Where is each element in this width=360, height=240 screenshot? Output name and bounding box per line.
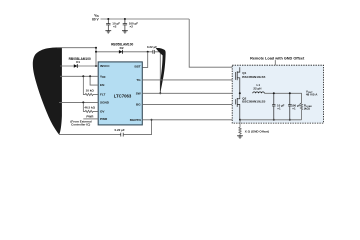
node dot SW midpoint <box>239 92 241 94</box>
wire PWR input <box>83 118 98 120</box>
svg-text:INVCC: INVCC <box>100 64 110 68</box>
svg-text:×2: ×2 <box>130 25 134 29</box>
svg-text:BST: BST <box>135 65 141 69</box>
svg-text:(kΩ): (kΩ) <box>304 107 310 111</box>
node dots ground rail <box>239 119 241 121</box>
pin labels left <box>100 64 110 121</box>
wire output rail <box>264 93 301 103</box>
svg-text:FLT: FLT <box>100 93 106 97</box>
capacitor COUT1 10uF <box>272 93 275 120</box>
load box dashed <box>232 65 323 123</box>
wire SW <box>142 92 240 94</box>
wire EN jog <box>90 76 98 85</box>
svg-text:60 V: 60 V <box>92 17 99 21</box>
wire D2 branch <box>96 51 153 53</box>
capacitor CBST 0.22uF <box>153 50 154 54</box>
svg-text:BG: BG <box>136 103 141 107</box>
wire bottom rail right segment <box>123 120 151 135</box>
svg-text:D1: D1 <box>76 60 80 64</box>
wire top-left from blob <box>57 48 96 66</box>
svg-text:PWR: PWR <box>100 117 108 121</box>
svg-text:SW: SW <box>136 91 141 95</box>
node dot cout2 <box>289 92 291 94</box>
svg-text:BSC059N10LS5: BSC059N10LS5 <box>242 100 265 104</box>
node dot D2 wire start <box>95 51 97 53</box>
svg-text:×2: ×2 <box>113 25 117 29</box>
svg-text:TG: TG <box>136 78 141 82</box>
wire BST riser <box>142 52 147 68</box>
node dot SGND-OV <box>82 101 84 103</box>
ground for CIN2 <box>122 31 128 33</box>
svg-text:0.22 µF: 0.22 µF <box>147 45 157 49</box>
resistor X GND offset <box>239 120 241 136</box>
wire TG <box>142 79 235 81</box>
svg-text:LTC7063: LTC7063 <box>114 94 132 99</box>
wire BG <box>142 103 235 105</box>
title tick <box>274 60 276 65</box>
capacitor CIN1 10uF x2 <box>106 19 110 31</box>
node dot bootstrap junction <box>147 51 149 53</box>
node VIN label <box>92 13 99 21</box>
svg-text:SGND: SGND <box>100 101 110 105</box>
node dot BGRTN junction <box>151 119 153 121</box>
node dot VDD-FLT <box>82 75 84 77</box>
capacitor C 0.22uF bottom <box>121 133 123 137</box>
diode D2 RB058LAM100 <box>119 50 123 54</box>
capacitor CIN2 100uF x2 <box>123 19 127 31</box>
wire ground rail inside box <box>240 119 302 121</box>
ground X <box>237 136 243 138</box>
node junction dot CIN2 <box>124 18 126 20</box>
transistor Q2 <box>236 93 240 120</box>
wire VIN rail drop to Q1 drain <box>189 19 240 67</box>
svg-text:X Ω (GND Offset): X Ω (GND Offset) <box>245 129 269 133</box>
wire VDD from blob <box>60 75 98 77</box>
transistor Q1 <box>236 67 240 93</box>
svg-text:×1: ×1 <box>277 107 281 111</box>
node dot VDD-EN <box>89 75 91 77</box>
svg-text:PWR: PWR <box>86 114 94 118</box>
ground for CIN1 <box>105 31 111 33</box>
svg-text:Controller IC): Controller IC) <box>71 123 90 127</box>
svg-text:48 V/5 A: 48 V/5 A <box>306 93 318 97</box>
svg-text:46.5 kΩ: 46.5 kΩ <box>84 105 95 109</box>
svg-text:D2: D2 <box>120 46 124 50</box>
svg-text:BGRTN: BGRTN <box>130 118 142 122</box>
wire SGND from blob <box>59 101 98 103</box>
node dot at INVCC junction <box>95 65 97 67</box>
IC U1 LTC7063 <box>98 62 142 125</box>
node dot cout1 <box>273 92 275 94</box>
node dot SW bootstrap <box>159 92 161 94</box>
wire INVCC from blob <box>60 65 98 67</box>
resistor RLOAD <box>300 103 302 120</box>
decorative black blob left <box>33 47 62 134</box>
node junction dot CIN1 <box>107 18 109 20</box>
wire bottom rail from blob tip <box>59 134 121 136</box>
node dot corner <box>95 47 97 49</box>
pin labels right <box>130 65 142 122</box>
wire VIN top rail <box>101 18 190 20</box>
svg-text:0.22 µF: 0.22 µF <box>114 128 124 132</box>
svg-text:22 µH: 22 µH <box>253 86 261 90</box>
resistor R FLT pull-up 10k <box>83 76 98 95</box>
decorative black swoosh <box>156 48 166 93</box>
svg-text:Remote Load with GND Offset: Remote Load with GND Offset <box>250 57 305 61</box>
svg-text:×1: ×1 <box>292 107 296 111</box>
wire BGRTN <box>142 119 240 121</box>
resistor R OV 46.5k <box>83 102 98 112</box>
svg-text:BSC059N10LS5: BSC059N10LS5 <box>242 75 265 79</box>
wire bootstrap to SW <box>154 52 160 94</box>
svg-text:10 kΩ: 10 kΩ <box>86 89 95 93</box>
inductor L1 22uH <box>253 92 265 93</box>
diode D1 RB058LAM100 <box>74 64 78 68</box>
capacitor COUT2 100uF <box>288 93 291 120</box>
svg-text:EN: EN <box>100 83 105 87</box>
